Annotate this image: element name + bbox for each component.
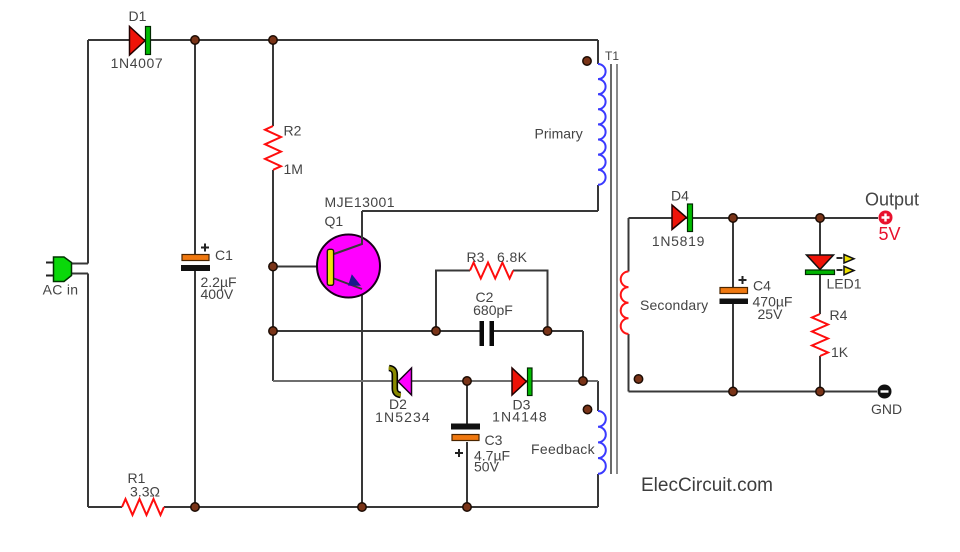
svg-text:Feedback: Feedback (531, 441, 596, 457)
svg-text:ElecCircuit.com: ElecCircuit.com (641, 475, 773, 496)
svg-text:LED1: LED1 (827, 276, 862, 292)
svg-text:50V: 50V (474, 459, 500, 475)
svg-text:5V: 5V (879, 224, 901, 244)
svg-text:R3: R3 (467, 249, 485, 265)
svg-text:D1: D1 (129, 8, 147, 24)
svg-text:1K: 1K (831, 344, 849, 360)
svg-text:Primary: Primary (535, 126, 583, 142)
svg-text:1N5819: 1N5819 (652, 233, 705, 249)
svg-text:25V: 25V (758, 306, 784, 322)
svg-text:Secondary: Secondary (640, 297, 708, 313)
svg-text:AC in: AC in (43, 282, 79, 298)
svg-text:1N4148: 1N4148 (492, 409, 548, 425)
svg-text:R4: R4 (830, 307, 848, 323)
svg-text:Output: Output (865, 190, 919, 210)
svg-text:MJE13001: MJE13001 (325, 194, 396, 210)
svg-text:1N5234: 1N5234 (375, 409, 431, 425)
svg-text:3.3Ω: 3.3Ω (130, 484, 160, 500)
svg-text:6.8K: 6.8K (497, 249, 528, 265)
svg-text:C1: C1 (215, 247, 233, 263)
svg-text:680pF: 680pF (473, 302, 513, 318)
svg-text:400V: 400V (201, 286, 234, 302)
svg-text:R2: R2 (284, 123, 302, 139)
svg-text:C3: C3 (485, 432, 503, 448)
svg-text:GND: GND (871, 401, 902, 417)
svg-text:T1: T1 (605, 49, 619, 63)
svg-text:C4: C4 (753, 278, 771, 294)
svg-text:Q1: Q1 (325, 213, 344, 229)
svg-text:1M: 1M (284, 161, 303, 177)
svg-text:1N4007: 1N4007 (111, 55, 164, 71)
svg-text:D4: D4 (671, 188, 689, 204)
